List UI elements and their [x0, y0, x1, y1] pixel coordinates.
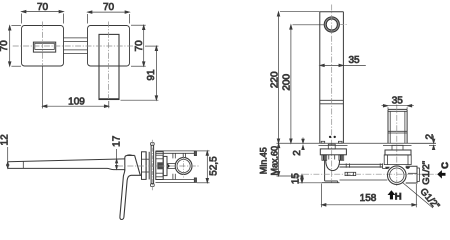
cartridge column top [388, 108, 407, 110]
wall plate square (spout side) [22, 26, 64, 67]
spout bottom edge [8, 168, 125, 169]
extension line 109 left [42, 66, 44, 109]
rail link to circle [383, 168, 388, 170]
cartridge bracket inner left [387, 155, 389, 165]
svg-text:52,5: 52,5 [208, 156, 219, 176]
rail top line [340, 163, 383, 165]
union nut inner [348, 172, 354, 175]
rail cap left [346, 163, 349, 167]
fixing screw left [329, 136, 331, 138]
riser tube right edge [342, 12, 344, 144]
rail top line 2 [156, 152, 195, 154]
stub below circle right [174, 174, 176, 180]
dimension 91 [121, 46, 159, 100]
valve block [163, 156, 167, 175]
handle front rect [99, 34, 119, 99]
dimension 2 left [302, 138, 305, 150]
circle vertical centerline [183, 156, 185, 178]
cone ring lower [142, 171, 150, 173]
C port block [406, 166, 417, 183]
cartridge escutcheon neck [392, 145, 403, 150]
stub above circle left [172, 153, 174, 158]
svg-text:200: 200 [282, 74, 293, 91]
inlet circle outer [388, 166, 407, 185]
aerator inner rect [35, 43, 55, 49]
svg-text:G1/2": G1/2" [421, 161, 432, 185]
screw left [385, 167, 389, 169]
elbow outer left [324, 160, 326, 181]
inlet circle vertical centerline [396, 164, 398, 187]
svg-text:70: 70 [103, 2, 115, 13]
cartridge column divider [388, 130, 407, 132]
handle slant edge [135, 155, 141, 175]
inlet circle inner [390, 168, 404, 182]
rail end cap top [194, 151, 196, 156]
screw right [406, 167, 410, 169]
H arrow [388, 190, 396, 199]
union nut [345, 172, 356, 175]
stub2 above circle right [184, 153, 186, 157]
wall plate square (handle side) [88, 26, 130, 67]
pipe to circle top [167, 163, 175, 165]
plate cap bottom [151, 184, 155, 187]
riser escutcheon neck [328, 144, 335, 149]
outlet circle mid ring [325, 18, 338, 31]
sleeve back line [148, 152, 150, 180]
cartridge bracket box [384, 155, 411, 165]
svg-text:220: 220 [269, 71, 280, 88]
riser tube top edge [320, 11, 344, 13]
svg-text:G1/2": G1/2" [417, 186, 441, 211]
plate line under cartridge [383, 144, 412, 146]
svg-text:158: 158 [360, 193, 377, 204]
dimension 200 [290, 25, 324, 144]
plate axis centerline [151, 140, 153, 190]
svg-text:109: 109 [68, 97, 85, 108]
connector inner line lower [64, 49, 88, 51]
centerline side view [117, 165, 199, 167]
dimension 35 cartridge [382, 104, 414, 109]
dimension 158 [322, 184, 417, 208]
dimension 70 left [8, 26, 21, 67]
aerator outer rect [33, 42, 55, 52]
dimension 35 riser [320, 64, 366, 67]
connector pipe top [64, 37, 88, 39]
cartridge column outer left [387, 109, 389, 143]
dimension 12 [7, 147, 9, 168]
cartridge column outer right [406, 109, 408, 143]
rail cap right [380, 163, 382, 168]
elbow funnel [326, 160, 340, 171]
cartridge line b [156, 158, 163, 160]
dimension Min45 Max60 [277, 143, 304, 176]
cartridge line a [156, 154, 163, 156]
dimension 17 [115, 149, 117, 169]
svg-text:2: 2 [424, 133, 435, 139]
cartridge column top inner [388, 110, 407, 112]
outlet circle outer [324, 17, 339, 32]
svg-text:70: 70 [134, 40, 145, 52]
rail bottom line 2 [156, 181, 195, 183]
cartridge centerline [396, 105, 398, 165]
riser joint line 2 [320, 103, 344, 105]
rail top line 1 [156, 150, 195, 152]
wall line [277, 142, 437, 144]
svg-text:35: 35 [392, 96, 404, 107]
dimension 70 right [131, 25, 146, 66]
plate line under riser [319, 144, 348, 146]
flange gap verticals [329, 155, 335, 160]
dimension 70 top-left [22, 10, 64, 23]
outlet circle right tick [340, 24, 347, 26]
riser centerline [331, 5, 333, 184]
cartridge escutcheon flange [385, 150, 411, 155]
riser escutcheon flange [320, 149, 346, 155]
svg-text:H: H [395, 192, 402, 203]
dimension 52,5 [197, 151, 210, 183]
sleeve front line [145, 152, 147, 180]
svg-text:70: 70 [37, 2, 49, 13]
riser foot right inner [341, 155, 343, 161]
spout top edge [8, 159, 125, 162]
spout joint tick [22, 161, 24, 168]
cartridge bracket inner right [407, 155, 409, 165]
lever bar [120, 170, 142, 220]
dimension 70 top-right [88, 11, 130, 24]
body bottom long line [340, 179, 388, 181]
svg-text:15: 15 [290, 173, 301, 185]
rail end cap bottom [194, 178, 196, 183]
cartridge circle outer [175, 158, 192, 175]
cartridge line c [156, 172, 163, 174]
spout tip edge [7, 162, 9, 169]
dimension 220 [277, 12, 320, 144]
riser foot right [339, 155, 344, 161]
cartridge column inner left [389, 111, 391, 143]
cartridge column inner right [404, 111, 406, 143]
cartridge block [156, 152, 163, 180]
wing right [339, 141, 343, 143]
cartridge line d [156, 176, 163, 178]
C port mid line [408, 172, 417, 174]
rail bottom line [340, 166, 383, 168]
mixer body side [125, 155, 135, 170]
wing left [321, 141, 325, 143]
svg-text:Min.45: Min.45 [259, 147, 269, 174]
outlet circle inner [326, 19, 337, 30]
dimension 15 [299, 174, 322, 183]
centerline square1 vertical [42, 22, 44, 67]
cone section [142, 152, 147, 180]
rail bottom line 1 [156, 179, 195, 181]
svg-text:35: 35 [348, 55, 360, 66]
stub2 above circle left [182, 153, 184, 157]
riser tube left edge [319, 12, 321, 144]
valve bump [167, 163, 168, 168]
connector inner line upper [64, 40, 88, 42]
svg-text:17: 17 [111, 135, 122, 147]
handle bottom thick edge [99, 98, 119, 100]
body top hump [127, 154, 132, 157]
cartridge circle inner [177, 159, 190, 172]
plate cap top [151, 143, 155, 146]
elbow bottom [325, 180, 338, 182]
C arrow [437, 170, 445, 179]
svg-text:91: 91 [146, 69, 157, 81]
flow arrow small [168, 164, 171, 168]
connector pipe bottom [64, 53, 88, 55]
centerline handle vertical [108, 22, 110, 100]
stub above circle right [174, 153, 176, 158]
svg-text:Max.60: Max.60 [269, 146, 279, 176]
C port cap [417, 168, 419, 181]
dimension 109 [43, 101, 109, 108]
G1/2 leader line [403, 183, 434, 209]
stub below circle left [172, 174, 174, 180]
wall plate side [151, 145, 154, 183]
cartridge dark center [157, 162, 162, 169]
elbow bottom step [322, 181, 340, 183]
riser foot left [322, 155, 327, 161]
svg-text:70: 70 [0, 40, 10, 52]
cartridge column divider 2 [388, 132, 407, 134]
svg-text:C: C [440, 162, 450, 169]
fixing screw right [334, 136, 336, 138]
pipe to circle bottom [167, 167, 175, 169]
riser joint line 1 [320, 99, 344, 101]
svg-text:12: 12 [0, 134, 11, 146]
dimension 2 right [412, 136, 436, 150]
svg-text:2: 2 [292, 150, 303, 156]
main centerline horizontal [303, 173, 440, 175]
riser foot left inner [324, 155, 326, 161]
cone ring upper [142, 158, 150, 160]
centerline horizontal front view [13, 45, 136, 47]
